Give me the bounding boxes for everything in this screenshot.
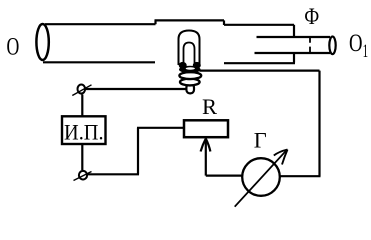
wire lamp tip to terminal 1 xyxy=(84,88,187,90)
wire power supply to terminal 2 xyxy=(81,144,83,170)
inner tube right end ellipse O1 xyxy=(329,37,335,55)
svg-text:И.П.: И.П. xyxy=(64,120,104,145)
lamp contact tip xyxy=(186,84,194,93)
wire inner tube top line xyxy=(257,36,331,38)
wire right vertical to galvanometer xyxy=(280,175,321,177)
wire inner tube bottom line xyxy=(255,52,331,54)
wire terminal 2 right xyxy=(87,173,140,175)
wire tube step-up riser xyxy=(154,20,156,24)
wire tube bottom line right segment xyxy=(224,62,295,64)
wire into rheostat left xyxy=(137,127,184,129)
wire up to rheostat xyxy=(137,128,139,175)
wire wiper to galvanometer xyxy=(206,175,243,177)
wire tube bottom line left segment xyxy=(43,61,155,63)
wire tube step-down riser xyxy=(223,20,225,25)
svg-text:R: R xyxy=(202,94,217,119)
inner tube dashed break xyxy=(309,37,311,53)
wire tube top line left segment xyxy=(45,23,156,25)
lamp socket shoulders xyxy=(179,62,187,69)
wire tube raised top line xyxy=(155,19,225,21)
wire terminal 1 to power supply xyxy=(81,95,83,117)
wire tube top line right segment xyxy=(224,24,294,26)
lamp inner wall xyxy=(184,43,195,66)
galvanometer G body xyxy=(242,158,280,196)
inner tube body (white mask) xyxy=(255,38,332,52)
wire tube right end cap xyxy=(293,25,295,63)
tube left end ellipse xyxy=(36,24,48,60)
rheostat R body xyxy=(184,120,228,137)
lamp EL1 glass envelope xyxy=(179,31,200,66)
wire right vertical down xyxy=(318,71,320,177)
rheostat wiper arrow xyxy=(205,139,207,176)
lamp screw band 2 xyxy=(179,72,201,79)
lamp socket dark band xyxy=(179,66,201,73)
terminal 2 xyxy=(79,171,87,180)
svg-text:O: O xyxy=(7,33,20,60)
terminal 1 xyxy=(78,85,86,94)
svg-text:Г: Г xyxy=(254,128,267,153)
lamp screw band 3 xyxy=(180,79,200,86)
wire lamp base to right vertical xyxy=(200,69,320,71)
svg-text:1: 1 xyxy=(363,41,369,62)
svg-text:O: O xyxy=(349,28,363,57)
svg-text:Ф: Ф xyxy=(304,4,319,30)
galvanometer needle arrow xyxy=(235,150,287,207)
power supply U1 box xyxy=(62,116,106,144)
